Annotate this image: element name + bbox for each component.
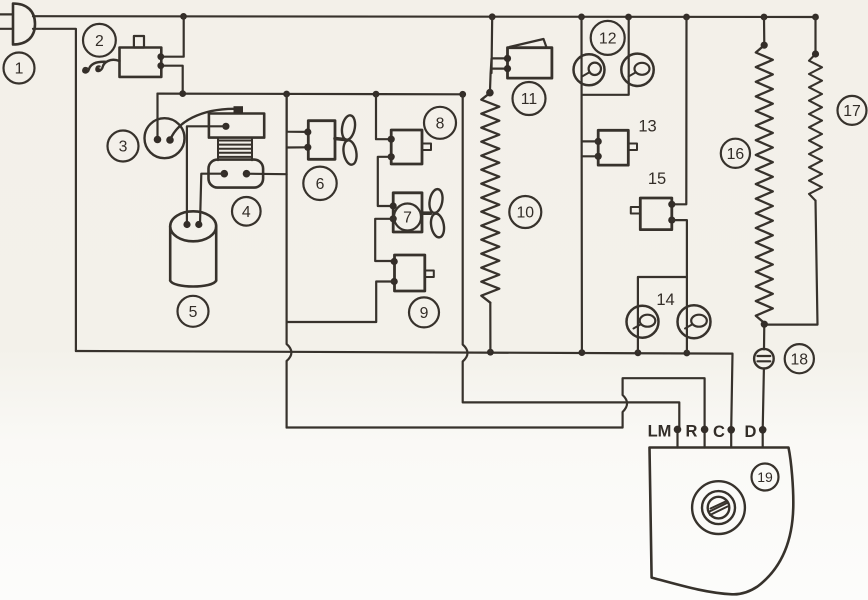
- motor M9 box: [395, 255, 425, 291]
- wire motor 6 bottom to vertical: [287, 146, 308, 148]
- svg-text:16: 16: [727, 146, 745, 163]
- wire down to component 3: [156, 94, 158, 138]
- plug P1 (component 1): [13, 4, 35, 45]
- sensing bulb squiggle of component 2: [96, 60, 119, 71]
- fan blades of motor 6: [335, 139, 345, 140]
- motor M7 box: [393, 193, 422, 232]
- label 16: [721, 139, 750, 168]
- svg-text:3: 3: [119, 139, 128, 156]
- svg-text:17: 17: [843, 103, 861, 120]
- wire lamp12 bottom bracket: [582, 17, 629, 95]
- heater element 17 zigzag: [809, 54, 822, 201]
- svg-text:11: 11: [521, 91, 538, 108]
- wire LM: from node 462,94 down hop over rail then right to LM terminal: [463, 94, 680, 427]
- wire comp18 to D terminal: [763, 369, 764, 430]
- wire motor7 bottom to motor9 top: [375, 219, 393, 261]
- wire lamp14 bracket: [638, 277, 687, 353]
- wire to motor 6 top: [287, 94, 308, 132]
- wire relay top box to compressor left pin: [187, 126, 226, 224]
- svg-text:10: 10: [517, 205, 535, 222]
- thermostat (component 11) box with open lid: [508, 48, 552, 78]
- lamp L12a: [574, 54, 605, 85]
- switch S2 (component 2) box: [120, 48, 162, 77]
- label 7: [394, 204, 421, 231]
- label 1: [4, 53, 35, 84]
- wire comp15 bottom down to lamps 14: [672, 220, 687, 353]
- wire plug neutral down left side: [33, 29, 76, 351]
- stub terminal right of motor 9: [425, 271, 434, 278]
- svg-text:14: 14: [656, 291, 674, 309]
- svg-text:19: 19: [757, 469, 773, 485]
- stub terminal right of motor 8: [422, 144, 431, 151]
- svg-text:C: C: [713, 423, 725, 441]
- label 11: [513, 82, 546, 115]
- lamp L14b: [678, 305, 711, 338]
- heater element 10 zigzag: [481, 93, 499, 303]
- svg-text:9: 9: [420, 305, 429, 322]
- relay socket (component 3) circle: [145, 118, 185, 158]
- label 18: [785, 344, 814, 373]
- label 5: [178, 296, 209, 327]
- relay coil hatch: [218, 138, 252, 161]
- wire main vertical from node 94 down with hop over neutral rail: [287, 94, 292, 428]
- wire branch rail y94: [158, 92, 463, 95]
- wire motor8 bottom to motor7 top: [378, 157, 393, 206]
- wire comp2 bottom terminal down to node: [161, 66, 182, 94]
- svg-text:D: D: [745, 423, 757, 441]
- heater element 16 zigzag: [756, 45, 773, 323]
- label 10: [509, 196, 541, 228]
- wire stubs comp13 to vertical: [582, 141, 598, 156]
- thermal fuse (component 18): [754, 349, 774, 369]
- label 12: [591, 21, 625, 55]
- wire vertical x686 from top rail: [672, 17, 687, 204]
- label 17: [838, 96, 867, 125]
- label 8: [424, 107, 456, 139]
- overload protector (component 4) lower box: [209, 160, 264, 188]
- switch 15 box: [640, 198, 672, 230]
- lamp L14a: [627, 306, 659, 338]
- svg-text:13: 13: [638, 118, 656, 136]
- wire node94 down to motor 8: [376, 94, 391, 139]
- wire motor9 bottom to main vertical: [287, 282, 395, 323]
- wire lamp12 left leg: [580, 17, 583, 353]
- compressor M5 (component 5) cylinder: [170, 211, 216, 286]
- wire overload right to main vertical: [247, 173, 287, 176]
- svg-text:5: 5: [189, 304, 198, 321]
- label 2: [83, 24, 116, 57]
- wire top live rail: [33, 15, 816, 18]
- label 9: [409, 297, 439, 327]
- svg-text:1: 1: [15, 61, 24, 78]
- label 6: [303, 167, 336, 200]
- wire overload to compressor right pin: [200, 174, 224, 225]
- relay R4 top box: [209, 114, 264, 138]
- svg-text:LM: LM: [648, 423, 672, 441]
- svg-text:R: R: [686, 423, 698, 441]
- terminal dots and leads into control: [678, 429, 763, 447]
- svg-text:4: 4: [242, 204, 251, 221]
- svg-text:15: 15: [648, 170, 666, 188]
- switch 13 box: [598, 130, 628, 165]
- label 19: [752, 464, 779, 491]
- wire heater10 top to comp 11 branch: [490, 17, 507, 93]
- label 4: [232, 197, 261, 226]
- wire neutral rail bottom: [76, 351, 733, 430]
- lamp L12b: [621, 54, 653, 86]
- wire heater17 bottom down and left to heater16 bottom: [764, 201, 818, 350]
- svg-text:18: 18: [791, 351, 809, 368]
- defrost control (component 19) housing: [650, 448, 794, 595]
- curved wire comp3 to relay coil: [171, 109, 235, 139]
- svg-text:7: 7: [403, 210, 412, 227]
- svg-text:12: 12: [599, 31, 617, 48]
- label 3: [108, 131, 139, 162]
- wire comp2 top terminal to top rail: [161, 16, 183, 56]
- svg-text:8: 8: [436, 116, 445, 133]
- knob of control 19: [692, 481, 745, 534]
- svg-text:6: 6: [316, 176, 325, 193]
- motor M8 box: [391, 130, 422, 164]
- svg-text:2: 2: [95, 33, 104, 50]
- fan motor M6 box: [308, 121, 335, 160]
- fan blades of motor 7: [422, 211, 431, 215]
- wire R: bottom horizontal with jog up, hop over LM wire, to R terminal: [287, 378, 705, 427]
